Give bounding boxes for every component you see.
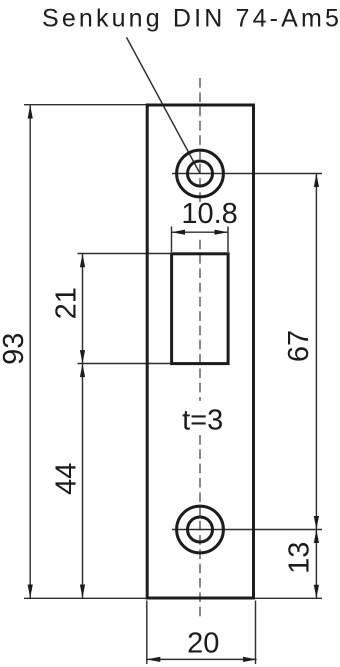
svg-text:44: 44 <box>50 463 82 495</box>
svg-text:10.8: 10.8 <box>181 198 237 230</box>
svg-text:67: 67 <box>283 330 315 362</box>
svg-text:20: 20 <box>187 627 219 659</box>
svg-text:Senkung DIN 74-Am5: Senkung DIN 74-Am5 <box>42 5 340 33</box>
svg-text:13: 13 <box>284 542 316 574</box>
svg-text:t=3: t=3 <box>182 404 223 436</box>
svg-text:21: 21 <box>50 287 82 319</box>
svg-text:93: 93 <box>0 333 30 365</box>
